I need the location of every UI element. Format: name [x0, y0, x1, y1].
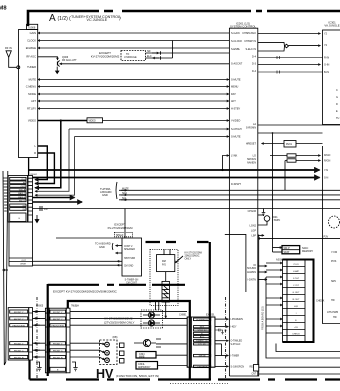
svg-text:D-3: D-3	[252, 63, 257, 66]
wire R/GN top	[258, 132, 323, 134]
svg-text:SPEAKER: SPEAKER	[124, 248, 135, 251]
svg-text:RF AGC: RF AGC	[26, 55, 36, 59]
wire C304L to CN991	[158, 365, 188, 367]
svg-text:LGN2: LGN2	[249, 225, 256, 228]
svg-text:ATS PWR: ATS PWR	[327, 311, 338, 314]
wire RGN 2	[285, 160, 321, 162]
svg-text:VIDEO: VIDEO	[89, 121, 96, 123]
wire sensor down	[165, 302, 167, 318]
video line label box	[87, 118, 103, 123]
svg-text:ELC: ELC	[147, 55, 152, 58]
wire VIDEO thick	[38, 120, 87, 122]
wire tuner to connector	[28, 158, 30, 176]
svg-text:P/S: P/S	[162, 264, 166, 267]
svg-text:TU: TU	[336, 117, 340, 120]
box A top dashed	[48, 284, 185, 286]
svg-text:(FUNCTION 6N, 5/6C6, EXT IN): (FUNCTION 6N, 5/6C6, EXT IN)	[116, 374, 159, 378]
svg-text:E: E	[336, 110, 338, 113]
wire OUT to speaker	[33, 260, 123, 262]
svg-text:VDD A: VDD A	[19, 189, 26, 192]
transistor Q006 RF AGC ATT	[58, 56, 78, 67]
wire MUTE out	[119, 189, 340, 191]
wire Q304 to CN991	[156, 343, 187, 345]
svg-text:S-MUTE: S-MUTE	[231, 78, 241, 81]
tick marks	[160, 51, 162, 60]
svg-text:FROM A BOARD (2/2): FROM A BOARD (2/2)	[262, 306, 265, 330]
svg-text:SRV: SRV	[331, 280, 336, 283]
svg-text:I: I	[296, 313, 297, 315]
wire RGN 1	[270, 155, 321, 157]
svg-text:WR-P: WR-P	[284, 248, 291, 250]
svg-text:FRONT Y: FRONT Y	[14, 312, 24, 314]
svg-text:7M(B)H: 7M(B)H	[71, 306, 79, 308]
thick chassis wire bottom left	[28, 360, 30, 380]
svg-text:7.6MHz: 7.6MHz	[272, 219, 281, 222]
svg-text:CN7: CN7	[252, 374, 257, 376]
wire drop x74.5	[35, 137, 75, 196]
bus Y-N thick	[29, 169, 320, 171]
svg-text:Y2: Y2	[324, 33, 328, 36]
svg-text:OUT: OUT	[21, 260, 26, 262]
svg-text:HRESET: HRESET	[246, 143, 257, 146]
svg-text:FRONT R/W: FRONT R/W	[13, 326, 26, 328]
svg-text:R/GN: R/GN	[324, 154, 330, 157]
svg-text:LYNK: LYNK	[231, 154, 238, 157]
svg-text:Y-N: Y-N	[324, 169, 328, 172]
jog on clock line	[172, 41, 174, 59]
wire thick stub MUTE	[33, 197, 75, 199]
svg-text:RMOT: RMOT	[19, 200, 26, 202]
wire R drop	[35, 153, 54, 184]
ground near connector	[36, 215, 38, 220]
resistor on RGN1	[287, 154, 296, 157]
TO A BOARD GND label	[95, 242, 111, 249]
svg-text:H,R: H,R	[294, 306, 298, 308]
svg-text:R/GN: R/GN	[324, 160, 330, 163]
wire S-CHIGH	[69, 128, 229, 130]
wire SDA out	[119, 194, 340, 196]
dotted line bottom	[170, 383, 228, 385]
wire G-N	[258, 64, 321, 66]
svg-text:(FL: (FL	[224, 330, 228, 332]
svg-text:MAIN 4: MAIN 4	[18, 196, 26, 199]
wire bottom border of jungle area	[258, 237, 340, 239]
svg-text:G OUT: G OUT	[293, 292, 301, 294]
svg-text:S-GAIN: S-GAIN	[231, 32, 240, 35]
svg-text:G: G	[336, 96, 338, 99]
svg-text:CM GND: CM GND	[124, 266, 134, 268]
svg-text:EXCEPT KV-27V20/20M/20M2/20V50: EXCEPT KV-27V20/20M/20M2/20V50M/20M3C	[53, 290, 118, 294]
svg-text:RV01: RV01	[286, 143, 293, 146]
wires into check connector	[266, 262, 283, 264]
tiny connector at B box corner	[254, 365, 259, 372]
svg-text:S-CHIGH: S-CHIGH	[231, 128, 242, 131]
svg-text:EX7001: EX7001	[206, 313, 215, 316]
svg-text:P3V: P3V	[324, 236, 329, 239]
dash-dot inner border left	[36, 297, 38, 378]
svg-text:I-TIMER: I-TIMER	[231, 356, 240, 358]
transistor Q304	[143, 339, 150, 346]
wires between connectors	[33, 312, 46, 357]
wire LYNK	[223, 156, 230, 171]
EXCEPT label top	[91, 51, 120, 59]
wire CHSSP diamond merge	[258, 42, 285, 51]
svg-text:AGRNN: AGRNN	[247, 271, 256, 274]
KV ONLY label	[185, 252, 203, 261]
svg-text:+5V: +5V	[294, 327, 298, 329]
svg-text:S-JUNGRCN: S-JUNGRCN	[231, 366, 245, 368]
check pin squares	[283, 260, 288, 343]
svg-text:E: E	[19, 218, 21, 220]
ELC wire	[146, 57, 173, 59]
wire GAIN	[38, 32, 230, 34]
memory IC002 box	[282, 246, 300, 254]
svg-text:S-ROMN: S-ROMN	[246, 127, 256, 130]
wire C.MENU	[38, 86, 229, 88]
small comps near CN991	[215, 329, 223, 333]
B board box bottom	[229, 235, 258, 377]
small resistors right of Q304	[156, 339, 161, 347]
svg-text:AFT: AFT	[31, 99, 36, 103]
svg-text:M8: M8	[0, 6, 7, 12]
svg-text:POS: POS	[331, 260, 337, 263]
ground near crystal	[262, 209, 266, 216]
wire collector to system control	[60, 63, 230, 65]
wire thick stub SDA	[33, 201, 83, 203]
svg-text:TU908: TU908	[28, 25, 36, 29]
svg-text:CLK: CLK	[21, 179, 26, 181]
svg-text:L9P: L9P	[252, 234, 257, 237]
wires diode box up	[156, 301, 159, 310]
wires from check bottom	[276, 344, 340, 352]
svg-text:FRONT C: FRONT C	[14, 319, 24, 321]
svg-text:U MODULE: U MODULE	[124, 56, 137, 59]
wires out of B box bottom right	[259, 366, 340, 368]
svg-text:MMB: MMB	[139, 356, 145, 358]
svg-text:KV-27V20/20M/20M2: KV-27V20/20M/20M2	[91, 55, 120, 59]
svg-text:E: E	[295, 320, 297, 322]
svg-text:S/RGB: S/RGB	[199, 356, 206, 358]
svg-text:S-ENBL: S-ENBL	[231, 48, 241, 51]
wire CHSPA to jungle	[258, 33, 321, 35]
svg-text:C.MENU: C.MENU	[26, 84, 36, 88]
svg-text:FRONT Y: FRONT Y	[14, 344, 24, 346]
bracket A BOARD GND	[100, 187, 112, 197]
svg-text:ENABLE: ENABLE	[26, 46, 37, 50]
connector pin squares	[28, 176, 33, 223]
connector CN006 left	[8, 308, 32, 360]
remote sensor connector strip	[162, 281, 169, 302]
wire into speaker box top	[56, 237, 122, 239]
svg-text:A: A	[49, 13, 56, 24]
edge arrow	[3, 269, 9, 271]
wire drop x69	[35, 129, 69, 191]
thick border CN005 to CN991	[68, 301, 190, 380]
svg-text:LGMP: LGMP	[293, 271, 300, 273]
svg-text:RT.LRY: RT.LRY	[27, 106, 36, 110]
vertical drop to memory	[272, 133, 274, 252]
svg-text:G-IN: G-IN	[324, 63, 329, 66]
svg-text:I-DNTN: I-DNTN	[248, 278, 257, 281]
EXCEPT label middle	[108, 223, 134, 230]
svg-text:Y-VM: Y-VM	[331, 251, 337, 254]
svg-text:H-STBY: H-STBY	[231, 107, 241, 110]
svg-text:VC JUNGLE: VC JUNGLE	[87, 18, 108, 22]
svg-text:I-POWER/N: I-POWER/N	[231, 319, 244, 321]
wires CN991 to B box	[215, 318, 229, 320]
svg-text:NANDN: NANDN	[247, 161, 256, 164]
resistor R block	[262, 143, 285, 145]
svg-text:STBY 9V: STBY 9V	[198, 330, 207, 332]
svg-text:FRONT R: FRONT R	[14, 357, 24, 359]
svg-text:D: D	[336, 103, 338, 106]
svg-text:S-ELC IN: S-ELC IN	[245, 48, 256, 51]
svg-text:LGP: LGP	[251, 230, 256, 233]
wire MUTE	[38, 79, 229, 81]
left page-edge strip	[3, 171, 8, 365]
system control IC001 header	[230, 22, 256, 29]
svg-text:CHSSP IN: CHSSP IN	[244, 40, 256, 43]
svg-text:D-4: D-4	[252, 70, 257, 73]
svg-text:SDA: SDA	[122, 192, 127, 195]
svg-text:B-IN: B-IN	[324, 71, 329, 74]
svg-text:CN005: CN005	[36, 306, 44, 308]
svg-text:SDAT: SDAT	[284, 251, 291, 254]
svg-text:AFT: AFT	[231, 100, 236, 103]
capacitor C 1W	[40, 206, 42, 211]
svg-text:HV: HV	[96, 367, 114, 381]
svg-text:CLOCK: CLOCK	[27, 38, 36, 42]
dashed part right edge	[329, 216, 340, 228]
svg-text:Y2: Y2	[324, 44, 328, 47]
wire RT.LRY	[38, 108, 229, 110]
jungle lower box	[323, 146, 340, 324]
svg-text:S-MUTE: S-MUTE	[231, 135, 241, 138]
wire ENABLE	[38, 47, 230, 49]
wire WIDE to speaker	[33, 264, 123, 266]
diode dashed box	[141, 310, 163, 328]
svg-text:FRONT C: FRONT C	[14, 351, 24, 353]
RM P/S dotted box	[150, 250, 178, 306]
box B right edge	[209, 242, 211, 380]
svg-text:MODE: MODE	[28, 92, 36, 96]
svg-text:SOUND: SOUND	[247, 267, 256, 270]
svg-text:FRONT R: FRONT R	[53, 358, 63, 360]
svg-text:(DB): (DB)	[113, 336, 118, 339]
divider line IC001 lower	[225, 234, 246, 292]
dashed border right of HV box	[225, 297, 227, 380]
svg-text:C304L: C304L	[138, 364, 145, 366]
dashed SHELF bracket	[115, 232, 133, 236]
svg-text:O-TIM/LED: O-TIM/LED	[231, 341, 243, 343]
svg-text:SIF: SIF	[147, 50, 151, 53]
wire MODE	[38, 93, 229, 95]
svg-text:CM CONT: CM CONT	[126, 283, 137, 285]
svg-text:WIDE: WIDE	[20, 263, 26, 265]
svg-text:KEY: KEY	[200, 327, 205, 329]
svg-text:CN991: CN991	[179, 313, 187, 316]
svg-text:(27V20/20V50M ONLY: (27V20/20V50M ONLY	[104, 321, 134, 325]
svg-text:VA JUNGLE: VA JUNGLE	[324, 24, 339, 28]
connector lower part	[9, 222, 33, 266]
svg-text:(1/2) (: (1/2) (	[58, 16, 72, 22]
ground CN006	[36, 362, 42, 371]
speaker relay box	[122, 238, 142, 276]
wire drop to speaker box	[124, 209, 126, 239]
svg-text:RF AGC-ATT: RF AGC-ATT	[62, 59, 77, 62]
jack pads	[120, 343, 125, 348]
wire jungle bottom	[258, 124, 340, 126]
svg-text:GND: GND	[102, 193, 108, 197]
svg-text:CHG06: CHG06	[248, 210, 257, 213]
svg-text:S-N: S-N	[324, 177, 329, 180]
crystal X001	[258, 214, 264, 216]
svg-text:SCL: SCL	[122, 197, 127, 200]
op-amp IC001 system control box	[229, 28, 257, 376]
jungle IC301 box	[323, 30, 340, 125]
svg-text:FRONT C: FRONT C	[53, 319, 63, 321]
wire VIDEO drop	[35, 121, 61, 188]
svg-text:MAIN 7: MAIN 7	[18, 192, 26, 195]
svg-text:CONT 2: CONT 2	[124, 246, 133, 248]
vertical drop x285	[284, 161, 286, 191]
KV only label bottom	[104, 317, 134, 325]
SIF wire	[146, 52, 230, 54]
svg-text:CHSPA BLK: CHSPA BLK	[242, 32, 256, 35]
svg-text:CHECK: CHECK	[316, 300, 325, 303]
svg-text:D-4: D-4	[252, 56, 257, 59]
svg-text:FRONT Y: FRONT Y	[53, 312, 63, 314]
dashed box TO U MODULE	[121, 51, 146, 61]
bottom box A thick left edge	[47, 284, 49, 376]
svg-text:TIMER LCD: TIMER LCD	[196, 341, 208, 343]
svg-text:S-6T/LLD: S-6T/LLD	[231, 344, 241, 346]
wires from CN005 right	[70, 311, 187, 313]
box B top dashed	[146, 241, 209, 243]
svg-text:DAT: DAT	[231, 93, 236, 96]
box C304	[136, 352, 156, 359]
RF input terminal	[17, 66, 20, 69]
wire into memory	[273, 247, 283, 249]
arrows into CN006	[34, 311, 40, 313]
tuner TU908 label box	[27, 24, 38, 29]
svg-text:C 7K7: C 7K7	[293, 285, 300, 287]
svg-text:ACC: ACC	[200, 336, 205, 339]
svg-text:S-CLOCK: S-CLOCK	[231, 40, 242, 43]
pin stubs right edge lower	[258, 234, 264, 236]
svg-text:TUNER: TUNER	[27, 65, 36, 69]
svg-text:PC/4: PC/4	[294, 264, 300, 266]
ground Q006 emitter	[56, 67, 58, 71]
svg-text:AMP/MODY: AMP/MODY	[138, 366, 151, 369]
svg-text:FRONT Y: FRONT Y	[53, 344, 63, 346]
svg-text:POWER/24: POWER/24	[196, 319, 208, 321]
svg-text:S-AGCNT: S-AGCNT	[231, 63, 243, 66]
wire 9V line	[33, 208, 340, 210]
svg-text:H/DH SSB: H/DH SSB	[124, 258, 135, 260]
A board border (thick top line)	[28, 11, 340, 26]
ground CN005	[72, 362, 78, 371]
junction video	[60, 119, 62, 121]
svg-text:STL-SD: STL-SD	[198, 344, 206, 346]
svg-text:MEMORY: MEMORY	[302, 250, 314, 253]
title A (1/2) TUNER+SYSTEM CONTROL, VC JUNGLE	[49, 13, 121, 24]
wire RF AGC to Q006	[38, 57, 58, 60]
svg-text:L: L	[35, 144, 37, 148]
bus S-N thick	[33, 177, 320, 179]
wire B-N	[258, 71, 323, 73]
antenna RF IN	[5, 46, 17, 67]
jog STL-SD to I-TIMER	[221, 344, 223, 356]
wire SCL out	[119, 199, 340, 201]
svg-text:R-IN: R-IN	[324, 56, 329, 59]
svg-text:MUTE: MUTE	[122, 187, 129, 190]
svg-text:HD: HD	[331, 299, 335, 302]
svg-text:RF IN: RF IN	[5, 46, 12, 50]
svg-text:GND: GND	[99, 245, 105, 249]
svg-text:KV-27V20/20M3GM: KV-27V20/20M3GM	[108, 226, 134, 230]
leader arrow	[175, 256, 183, 263]
wire L drop	[35, 146, 47, 180]
svg-text:GAIN: GAIN	[30, 31, 36, 35]
svg-text:S-TIMER-GN: S-TIMER-GN	[125, 280, 139, 282]
svg-text:HD: HD	[333, 316, 337, 319]
svg-text:I-VIDEO: I-VIDEO	[231, 119, 240, 122]
svg-text:I-KEY: I-KEY	[231, 327, 237, 329]
wire R-N	[258, 57, 323, 59]
svg-text:VIDEO: VIDEO	[28, 118, 36, 122]
svg-text:OUT: OUT	[21, 186, 26, 188]
connector CN005 right	[45, 308, 70, 373]
svg-text:R OUT: R OUT	[293, 299, 300, 301]
jungle IC301 header	[324, 21, 339, 28]
tuner box	[19, 30, 38, 158]
wire C304 to CN991	[156, 354, 187, 356]
svg-text:CHECK: CHECK	[292, 334, 300, 336]
wire S-MUTE2	[75, 136, 230, 138]
svg-text:FRONT C: FRONT C	[53, 351, 63, 353]
svg-text:C: C	[336, 89, 338, 92]
svg-text:ONLY: ONLY	[185, 258, 192, 261]
wire CLOCK	[38, 40, 230, 42]
svg-text:MENU: MENU	[231, 85, 239, 88]
svg-text:D-SPWT: D-SPWT	[231, 183, 241, 186]
box C304L	[136, 362, 158, 370]
speaker box arrows	[116, 245, 123, 247]
bottom border thick dashed	[30, 378, 340, 380]
svg-text:JUNGRSE: JUNGRSE	[197, 366, 208, 368]
svg-text:FRONT R/W: FRONT R/W	[52, 326, 65, 328]
resistor on RGN2	[287, 159, 296, 162]
svg-text:R: R	[34, 151, 36, 155]
svg-text:SHELF: SHELF	[116, 235, 124, 237]
svg-text:MUTE: MUTE	[29, 77, 37, 81]
wire AFT	[38, 100, 229, 102]
svg-text:S 7H7: S 7H7	[293, 278, 300, 280]
